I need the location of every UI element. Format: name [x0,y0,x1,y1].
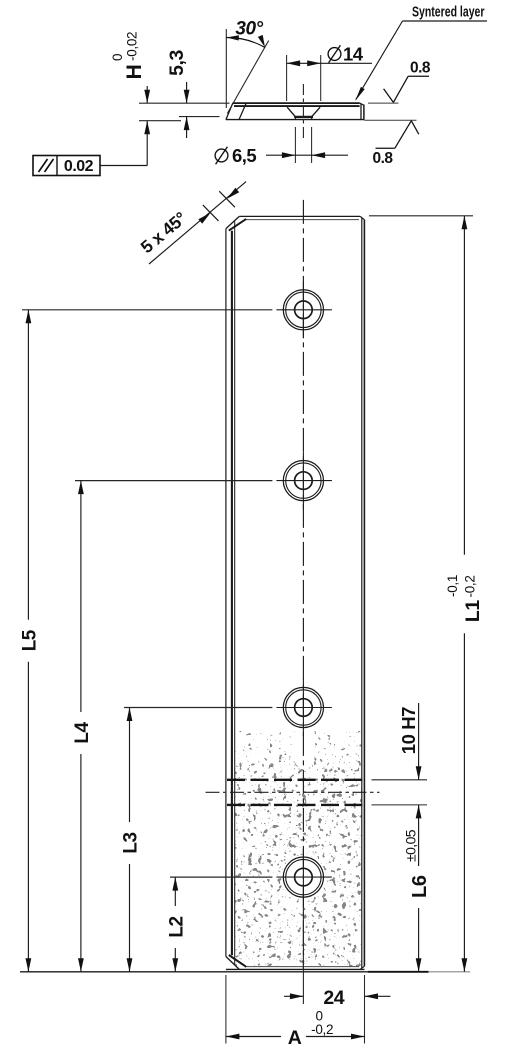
dia6,5 right extension line [311,127,313,163]
top surface finish extension line [368,102,399,104]
main plate top-right corner [360,216,364,219]
hole 4 bore circle [295,868,313,886]
svg-text:-0,1: -0,1 [445,575,460,597]
hole 3 horizontal crosshair [276,707,332,709]
svg-text:0.8: 0.8 [410,60,431,77]
sintered speckle region [234,731,363,967]
svg-text:L1: L1 [462,600,484,622]
hole 2 center extension line [75,480,272,482]
dimension L1 line [463,216,465,555]
svg-text:0.8: 0.8 [372,150,393,167]
syntered leader line [403,20,488,22]
bottom extension line right gray [429,971,471,973]
dimension L5 [27,310,29,620]
top view right end corner chamfer [360,103,364,105]
hole 1 countersink outer circle [283,290,323,330]
A dim left extension line [225,975,227,1044]
syntered leader arrow [355,87,365,101]
svg-text:A: A [288,1027,302,1049]
main plate bottom edge outer [226,968,365,970]
dimension H lower arrow + leader to tolerance frame [146,121,148,166]
dia14 right extension line [320,55,322,101]
svg-text:14: 14 [343,44,364,65]
top view right end outer edge [363,105,365,120]
svg-text:L4: L4 [72,721,93,743]
top view plate top edge inner (sintered layer) [234,105,360,107]
hole 1 center extension line [22,309,272,311]
main plate top edge outer [239,215,360,217]
chamfer callout arrow 1 [198,213,210,224]
main plate bottom edge inner [246,966,360,968]
hole 3 countersink outer circle [283,687,323,727]
dimension A line [226,1036,281,1038]
svg-text:-0,02: -0,02 [125,32,140,61]
main plate right outer edge [363,220,365,966]
bottom extension line middle thick [368,971,429,973]
hole 4 countersink inner circle [286,859,321,894]
bottom surface finish extension line [364,119,416,121]
svg-text:30°: 30° [235,19,263,40]
hole 2 horizontal crosshair [276,480,332,482]
30-deg reference vertical line [225,29,227,108]
slot centerline chain [206,791,380,793]
surface finish symbol bottom [411,121,419,135]
top-right extension line [369,215,473,217]
surface finish symbol top [384,89,394,103]
dia14 left extension line [286,55,288,101]
svg-text:H: H [123,65,146,80]
hole 4 countersink outer circle [283,857,323,897]
main plate top edge inner [246,219,360,221]
main plate left chamfer edge thin [234,222,236,965]
slot upper extension line right [372,779,428,781]
countersink depth extension line [179,116,220,118]
hole bore right edge [311,117,313,120]
main plate left chamfer edge thick [231,231,233,955]
hole 2 countersink inner circle [286,463,321,498]
countersink bottom edge thick [294,116,313,118]
main plate bottom-right corner [360,966,364,969]
svg-text:6,5: 6,5 [232,145,256,166]
dimension 24 right arrow [365,995,391,997]
countersink right slant edge [312,107,321,117]
hole 1 bore circle [295,301,313,319]
hole 1 horizontal crosshair [276,309,332,311]
hole 1 countersink inner circle [286,292,321,327]
chamfer callout dimension line [149,182,246,264]
svg-text:24: 24 [323,987,344,1009]
top view plate top edge outer (sintered layer) [233,102,360,104]
24 dim centerline extension [302,906,304,1004]
main plate bottom-left corner chamfer [226,957,239,970]
slot lower hidden edge [227,804,365,806]
dimension L3 [129,708,131,823]
dimension 10 H7 line with upper arrow [418,703,420,780]
main plate left outer edge [225,229,227,957]
chamfer callout tick 2 [219,191,235,207]
parallelism symbol [39,159,48,172]
svg-text:Syntered layer: Syntered layer [412,4,485,21]
top view plate bottom edge [226,119,364,121]
svg-text:L3: L3 [121,832,142,853]
svg-text:-0,2: -0,2 [311,1022,333,1037]
dia6,5 left extension line [294,127,296,163]
svg-text:L2: L2 [167,916,188,937]
slot upper hidden edge [227,779,365,781]
hole 2 vertical crosshair [302,452,304,509]
chamfer callout arrow 2 [227,188,239,199]
slot lower extension line right [372,804,428,806]
feature control frame box [33,156,100,176]
svg-text:L6: L6 [409,875,431,898]
top view right end inner edge [360,104,362,120]
svg-text:0.02: 0.02 [64,158,94,175]
hole 4 horizontal crosshair [276,876,332,878]
hole 2 bore circle [295,472,313,490]
top view vertical centerline [302,84,304,141]
hole bore left edge [294,117,296,120]
svg-text:0: 0 [110,54,125,61]
dimension L2 [174,877,176,906]
hole 4 center extension line [170,876,272,878]
A dim right extension line [364,975,366,1044]
bottom surface extension line left [139,120,181,122]
hole 1 vertical crosshair [302,281,304,338]
dimension H upper arrow [146,86,148,103]
main plate top-left corner chamfer [226,216,239,228]
vertical centerline of holes [302,200,304,969]
dia14 dimension line [287,62,372,64]
dia6,5 dimension line [266,154,348,156]
hole 3 bore circle [295,699,313,717]
dimension 5,3 upper arrow [186,82,188,103]
top view left end chamfer outer edge [226,103,233,120]
svg-text:±0,05: ±0,05 [402,829,418,862]
label dia 6,5 [215,147,228,165]
main plate right inner edge [361,218,363,969]
top surface extension line [139,102,230,104]
30-deg dimension arc [226,37,265,47]
hole 3 countersink inner circle [286,690,321,725]
hole 3 center extension line [124,707,272,709]
chamfer callout tick 1 [203,205,219,221]
30-deg chamfer extension slant line [227,41,268,114]
dimension lower arrow and L6 line [418,805,420,866]
svg-text:L5: L5 [20,629,41,651]
top view left end chamfer inner edge [239,103,246,120]
dimension L4 [80,481,82,712]
hole 2 countersink outer circle [283,461,323,501]
hole 3 vertical crosshair [302,679,304,736]
svg-text:5,3: 5,3 [166,50,188,76]
svg-text:10 H7: 10 H7 [398,707,419,754]
hole 4 vertical crosshair [302,849,304,906]
frame leader line [100,165,147,167]
svg-text:-0,2: -0,2 [462,575,477,597]
dimension 5,3 lower arrow [186,117,188,138]
bottom extension line left [20,971,368,973]
countersink left slant edge [287,107,295,117]
dimension 24 left arrow [284,995,303,997]
label dia 14 [328,45,341,63]
